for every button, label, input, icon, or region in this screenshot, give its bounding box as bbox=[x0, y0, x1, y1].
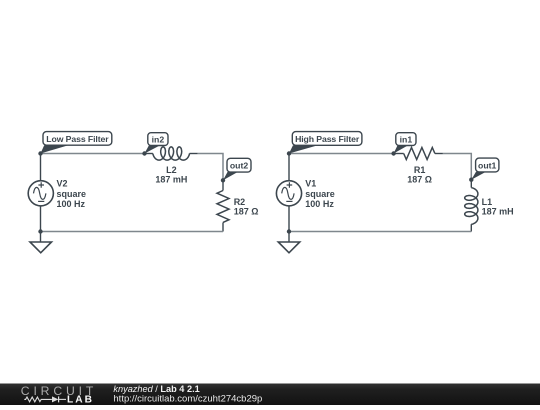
wire lead R1 right bbox=[435, 153, 443, 155]
node B (High Pass Filter attach) bbox=[287, 151, 291, 155]
svg-text:in1: in1 bbox=[400, 135, 413, 145]
wire lead L1 top bbox=[470, 180, 472, 188]
node out2 bbox=[221, 178, 225, 182]
svg-text:Low Pass Filter: Low Pass Filter bbox=[46, 134, 109, 144]
svg-text:187 mH: 187 mH bbox=[155, 174, 187, 184]
wire lead in1 to R1 bbox=[394, 153, 404, 155]
wire lead L2 right bbox=[190, 153, 198, 155]
label L2 name/value bbox=[155, 165, 187, 184]
flag out1 bbox=[471, 158, 499, 180]
wire lead R2 bottom bbox=[222, 223, 224, 232]
resistor R1 bbox=[404, 148, 435, 160]
svg-text:187 Ω: 187 Ω bbox=[407, 174, 432, 184]
svg-text:out1: out1 bbox=[478, 160, 497, 170]
node in1 bbox=[391, 151, 395, 155]
ground left bbox=[30, 242, 52, 253]
resistor R2 bbox=[217, 191, 229, 223]
wire lead V2 top bbox=[40, 154, 42, 181]
inductor L2 bbox=[153, 147, 190, 160]
footer url bbox=[113, 393, 262, 404]
flag High Pass Filter bbox=[289, 132, 362, 154]
wire lead V1 bottom bbox=[288, 206, 290, 232]
wire top rail left circuit bbox=[41, 153, 145, 155]
wire top rail right circuit bbox=[289, 153, 394, 155]
wire bottom rail right circuit bbox=[289, 231, 471, 233]
svg-text:V2: V2 bbox=[57, 179, 68, 189]
label V2 name/params bbox=[57, 179, 87, 210]
svg-text:High Pass Filter: High Pass Filter bbox=[295, 134, 360, 144]
voltage source V2 bbox=[28, 181, 53, 206]
svg-text:in2: in2 bbox=[152, 135, 165, 145]
wire lead L1 bottom bbox=[470, 224, 472, 231]
wire ground stub left bbox=[40, 232, 42, 243]
label L1 name/value bbox=[482, 197, 514, 217]
flag in2 bbox=[145, 133, 169, 154]
svg-text:100 Hz: 100 Hz bbox=[305, 199, 334, 209]
svg-text:187 Ω: 187 Ω bbox=[234, 207, 259, 217]
node in2 bbox=[142, 151, 146, 155]
svg-text:LAB: LAB bbox=[67, 395, 94, 405]
svg-text:square: square bbox=[305, 189, 335, 199]
node out1 bbox=[469, 178, 473, 182]
svg-text:V1: V1 bbox=[305, 179, 316, 189]
flag out2 bbox=[223, 158, 251, 180]
wire from L2 lead to right corner bbox=[198, 154, 223, 183]
svg-text:square: square bbox=[57, 189, 87, 199]
svg-text:100 Hz: 100 Hz bbox=[57, 199, 86, 209]
svg-text:knyazhed / Lab 4 2.1: knyazhed / Lab 4 2.1 bbox=[113, 384, 199, 394]
voltage source V1 bbox=[276, 181, 301, 206]
node A (Low Pass Filter attach) bbox=[38, 151, 42, 155]
svg-text:out2: out2 bbox=[230, 161, 249, 171]
node ground junction right bbox=[287, 229, 291, 233]
label V1 name/params bbox=[305, 179, 335, 210]
wire ground stub right bbox=[288, 232, 290, 243]
svg-text:187 mH: 187 mH bbox=[482, 207, 514, 217]
svg-text:L1: L1 bbox=[482, 197, 493, 207]
footer byline bbox=[113, 384, 199, 394]
wire from R1 lead to right corner bbox=[443, 154, 471, 180]
wire lead R2 top bbox=[222, 183, 224, 191]
wire lead V2 bottom bbox=[40, 206, 42, 232]
ground right bbox=[278, 242, 300, 253]
wire bottom rail left circuit bbox=[41, 231, 224, 233]
svg-text:R2: R2 bbox=[234, 197, 246, 207]
node ground junction left bbox=[38, 229, 42, 233]
flag Low Pass Filter bbox=[41, 132, 112, 154]
label R2 name/value bbox=[234, 197, 259, 217]
wire lead V1 top bbox=[288, 154, 290, 181]
svg-text:http://circuitlab.com/czuht274: http://circuitlab.com/czuht274cb29p bbox=[113, 393, 262, 404]
wire lead in2 to L2 bbox=[145, 153, 153, 155]
logo CircuitLab bbox=[21, 384, 97, 406]
inductor L1 bbox=[465, 188, 478, 225]
flag in1 bbox=[394, 133, 416, 154]
label R1 name/value bbox=[407, 165, 432, 184]
